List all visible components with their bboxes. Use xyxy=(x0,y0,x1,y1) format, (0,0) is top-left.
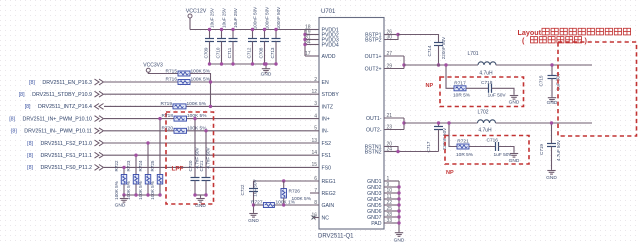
svg-text:10uF 25V: 10uF 25V xyxy=(222,7,227,28)
junction C710 top xyxy=(220,28,223,31)
svg-text:NC: NC xyxy=(322,215,330,221)
svg-text:C720: C720 xyxy=(188,160,193,171)
wire net REG1 xyxy=(254,181,320,189)
no-connect X on pin 16 xyxy=(312,216,316,220)
resistor R715 100K 5% xyxy=(178,71,190,76)
svg-text:[8]: [8] xyxy=(27,165,33,171)
wire ground drop of cap bank xyxy=(265,64,267,68)
junction R726 bottom on GAIN xyxy=(282,203,285,206)
wire pulldown ground drop xyxy=(123,195,125,197)
svg-text:GND: GND xyxy=(509,100,520,106)
junction BSTN tie xyxy=(396,150,399,153)
svg-text:C713: C713 xyxy=(270,47,275,58)
svg-text:C721: C721 xyxy=(199,160,204,171)
wire LPF ground drop xyxy=(200,195,202,197)
resistor R720 100K 5% (IN- series) xyxy=(174,128,187,133)
svg-text:100K 5%: 100K 5% xyxy=(187,125,207,131)
wire R721 to C716 xyxy=(469,146,496,148)
NP dashed outline box (top snubber) xyxy=(440,77,524,107)
svg-text:R721: R721 xyxy=(457,139,469,145)
resistor R723 100K 5% pulldown xyxy=(135,155,137,174)
svg-text:NP: NP xyxy=(446,170,454,176)
svg-text:FS2: FS2 xyxy=(322,141,332,147)
junction R723 bottom xyxy=(134,193,137,196)
svg-text:GND: GND xyxy=(195,203,206,209)
port DRV2511_FS0_P11.2 xyxy=(95,165,104,171)
wire OUT- line to L702 xyxy=(404,122,478,124)
svg-text:100K 5%: 100K 5% xyxy=(114,181,119,200)
svg-text:R718: R718 xyxy=(162,113,174,119)
svg-text:DRV2511_STDBY_P10.9: DRV2511_STDBY_P10.9 xyxy=(32,92,92,98)
wire BSTP to C714 xyxy=(398,35,439,43)
junction C720 top xyxy=(193,117,196,120)
wire net DRV2511_FS0_P11.2 xyxy=(104,166,319,168)
svg-text:GND: GND xyxy=(509,158,520,164)
junction OUT+ takeoff xyxy=(402,63,405,66)
svg-text:R727: R727 xyxy=(251,199,263,205)
svg-text:L702: L702 xyxy=(477,110,488,116)
svg-text:100K 5%: 100K 5% xyxy=(187,101,207,107)
svg-text:[8]: [8] xyxy=(9,116,15,122)
wire C717 to BSTN pins xyxy=(398,151,439,153)
wire net DRV2511_IN+_PWM_P10.10 xyxy=(104,118,174,120)
junction GND tie y=223 xyxy=(397,221,400,224)
capacitor C711 10uF 25V xyxy=(232,30,234,39)
svg-text:OUT2+: OUT2+ xyxy=(365,66,382,72)
wire OUT- line after L702 xyxy=(496,122,593,124)
svg-text:[8]: [8] xyxy=(29,80,35,86)
resistor R719 100K 5% (INTZ series) xyxy=(173,104,186,109)
inductor L702 4.7uH xyxy=(478,120,496,123)
wire C718 to ground (top) xyxy=(492,88,515,94)
junction R724 top xyxy=(146,141,149,144)
svg-text:NP: NP xyxy=(426,83,434,89)
svg-text:100K 5%: 100K 5% xyxy=(126,181,131,200)
svg-text:R720: R720 xyxy=(162,125,174,131)
svg-text:R717: R717 xyxy=(454,80,466,86)
wire BSTP2 stub xyxy=(384,35,398,40)
port DRV2511_INTZ_P16.4 xyxy=(95,104,104,110)
svg-text:[8]: [8] xyxy=(27,153,33,159)
wire net DRV2511_IN-_PWM_P10.11 xyxy=(104,130,174,132)
port DRV2511_FS1_P11.1 xyxy=(95,152,104,158)
wire C716 to ground (bottom) xyxy=(499,147,515,153)
svg-text:OUT1+: OUT1+ xyxy=(365,54,382,60)
dashed outline box: board pad area xyxy=(558,42,637,136)
svg-text:C714: C714 xyxy=(427,45,432,56)
svg-text:U701: U701 xyxy=(321,9,336,15)
junction R725 top xyxy=(158,117,161,120)
svg-text:100K 5%: 100K 5% xyxy=(150,181,155,200)
svg-text:DRV2511_EN_P16.3: DRV2511_EN_P16.3 xyxy=(42,80,92,86)
svg-text:GND: GND xyxy=(394,238,405,244)
wire VCC12V vertical drop xyxy=(189,18,191,30)
svg-text:PVDD4: PVDD4 xyxy=(322,42,339,48)
pin 7 stub (unconnected) xyxy=(310,192,319,194)
junction C712 bottom xyxy=(251,62,254,65)
ground symbol C719 xyxy=(547,169,555,174)
wire net DRV2511_FS1_P11.1 xyxy=(104,154,319,156)
svg-text:34: 34 xyxy=(305,39,311,45)
svg-text:[8]: [8] xyxy=(27,141,33,147)
wire net DRV2511_INTZ_P16.4 xyxy=(104,105,173,107)
wire pin18 stub xyxy=(305,29,319,31)
junction BSTP tie xyxy=(396,33,399,36)
wire net DRV2511_EN_P16.3 xyxy=(104,81,178,83)
svg-text:C719: C719 xyxy=(539,144,544,155)
junction GND tie y=217 xyxy=(397,215,400,218)
port DRV2511_FS2_P11.0 xyxy=(95,140,104,146)
svg-text:C716: C716 xyxy=(487,138,499,144)
wire snubber drop (bottom) xyxy=(449,123,457,147)
svg-text:GND: GND xyxy=(546,175,557,181)
svg-text:DRV2511_FS2_P11.0: DRV2511_FS2_P11.0 xyxy=(40,141,92,147)
wire R715 to node xyxy=(190,74,211,107)
svg-text:R725: R725 xyxy=(150,160,155,171)
svg-text:10R 5%: 10R 5% xyxy=(456,152,474,158)
junction C708 top xyxy=(263,28,266,31)
svg-text:OUT1-: OUT1- xyxy=(366,116,382,122)
junction GND tie y=193 xyxy=(397,191,400,194)
svg-text:4.7nF 50V: 4.7nF 50V xyxy=(206,146,211,168)
junction C721 bottom xyxy=(204,193,207,196)
svg-text:R715: R715 xyxy=(166,68,178,74)
svg-text:100nF 50V: 100nF 50V xyxy=(265,6,270,29)
svg-text:C715: C715 xyxy=(539,75,544,86)
svg-text:BSTP2: BSTP2 xyxy=(365,37,382,43)
ground symbol bottom snubber xyxy=(510,152,518,157)
wire OUT1+ stub xyxy=(384,55,404,57)
junction C719 on OUT- line xyxy=(550,121,553,124)
svg-text:L701: L701 xyxy=(467,51,478,57)
wire GND pin stubs and tie xyxy=(384,180,399,182)
svg-text:10uF 25V: 10uF 25V xyxy=(233,7,238,28)
junction GND tie y=187 xyxy=(397,185,400,188)
wire C722 leg to R727 xyxy=(254,204,264,206)
svg-text:C711: C711 xyxy=(227,47,232,58)
wire LPF cap ground bus xyxy=(195,194,206,196)
resistor R718 100K 5% (IN+ series) xyxy=(174,116,187,121)
op-amp / driver IC U701 DRV2511-Q1 body xyxy=(319,18,384,230)
svg-text:17: 17 xyxy=(305,51,311,57)
power symbol VCC12V xyxy=(188,14,192,18)
svg-text:10R 5%: 10R 5% xyxy=(453,92,471,98)
capacitor C719 4.7uF 50V xyxy=(551,123,553,144)
svg-text:STDBY: STDBY xyxy=(322,92,340,98)
junction C711 bottom xyxy=(231,62,234,65)
junction snubber takeoff (bottom) xyxy=(447,121,450,124)
svg-text:100K 5%: 100K 5% xyxy=(187,113,207,119)
capacitor C721 4.7nF 50V xyxy=(205,131,207,178)
junction C709 bottom xyxy=(208,62,211,65)
svg-text:100K 5%: 100K 5% xyxy=(292,196,312,202)
wire pin17 AVDD stub xyxy=(305,55,319,57)
resistor R721 10R 5% xyxy=(457,144,469,149)
resistor R727 100K 1% xyxy=(263,203,274,208)
junction C711 top xyxy=(231,28,234,31)
svg-text:[8]: [8] xyxy=(25,104,31,110)
pin 16 stub (unconnected) xyxy=(314,217,320,219)
wire OUT- tie vertical xyxy=(403,118,405,130)
junction R723 top xyxy=(134,154,137,157)
svg-text:C708: C708 xyxy=(259,47,264,58)
wire snubber drop (top) xyxy=(446,65,454,88)
svg-text:C710: C710 xyxy=(216,47,221,58)
svg-text:FS1: FS1 xyxy=(322,153,332,159)
svg-text:R723: R723 xyxy=(126,160,131,171)
inductor L701 4.7uH xyxy=(478,62,496,65)
wire pulldown ground bus xyxy=(124,194,160,196)
svg-text:BSTN2: BSTN2 xyxy=(365,149,382,155)
wire R717 to C718 xyxy=(466,87,489,89)
junction GND tie y=205 xyxy=(397,203,400,206)
ground symbol LPF xyxy=(196,197,204,202)
svg-text:LPF: LPF xyxy=(172,166,184,173)
junction R722 bottom xyxy=(122,193,125,196)
svg-text:GND: GND xyxy=(261,72,272,78)
svg-text:4.7uH: 4.7uH xyxy=(479,70,493,76)
wire OUT+ line to L701 xyxy=(404,64,478,66)
junction PVDD2 xyxy=(303,33,306,36)
junction C721 top xyxy=(204,129,207,132)
junction PVDD3 xyxy=(303,38,306,41)
svg-text:INTZ: INTZ xyxy=(322,104,334,110)
svg-text:220nF 50V: 220nF 50V xyxy=(441,36,446,59)
capacitor C712 100nF 50V xyxy=(252,30,254,39)
svg-text:R722: R722 xyxy=(114,160,119,171)
ground symbol pulldowns xyxy=(120,197,128,202)
wire OUT2+ stub xyxy=(384,68,404,70)
junction C713 bottom xyxy=(274,62,277,65)
svg-text:DRV2511_IN-_PWM_P10.11: DRV2511_IN-_PWM_P10.11 xyxy=(24,129,92,135)
wire VCC3V3 to R715 xyxy=(148,72,178,73)
ground symbol C722 xyxy=(249,212,257,217)
svg-text:VCC12V: VCC12V xyxy=(186,9,207,15)
svg-text:R719: R719 xyxy=(161,101,173,107)
svg-text:1uF 50V: 1uF 50V xyxy=(253,178,258,196)
svg-text:C722: C722 xyxy=(240,184,245,195)
capacitor C710 10uF 25V xyxy=(221,30,223,39)
junction C709 top xyxy=(208,28,211,31)
wire VCC12V horizontal bus to PVDD pins xyxy=(190,29,305,31)
LPF dashed outline box xyxy=(166,112,214,204)
junction R722 top xyxy=(122,166,125,169)
junction C710 bottom xyxy=(220,62,223,65)
NP dashed outline box (bottom snubber) xyxy=(445,136,529,165)
svg-text:PAD: PAD xyxy=(371,221,382,227)
ground symbol cap bank xyxy=(262,68,270,73)
svg-text:GND: GND xyxy=(547,100,558,106)
svg-text:100K 5%: 100K 5% xyxy=(138,181,143,200)
capacitor C717 220nF 50V xyxy=(438,123,440,127)
svg-text:IN-: IN- xyxy=(322,129,329,135)
resistor R722 100K 5% pulldown xyxy=(123,167,125,174)
svg-text:GND: GND xyxy=(115,203,126,209)
capacitor C722 1uF 50V xyxy=(249,189,258,192)
ground symbol chip GND xyxy=(395,232,403,237)
junction C712 top xyxy=(251,28,254,31)
ground symbol top snubber xyxy=(510,94,518,99)
svg-text:C712: C712 xyxy=(247,47,252,58)
wire PVDD pin tie vertical xyxy=(304,30,306,57)
svg-text:[8]: [8] xyxy=(19,92,25,98)
wire BSTN2 stub xyxy=(384,151,398,153)
capacitor C715 1uF 50V xyxy=(551,65,553,76)
junction PVDD4 xyxy=(303,43,306,46)
junction R725 bottom xyxy=(158,193,161,196)
wire OUT1- stub xyxy=(384,117,404,119)
capacitor C714 220nF 50V xyxy=(434,43,443,46)
junction C713 top xyxy=(274,28,277,31)
svg-text:C718: C718 xyxy=(481,80,493,86)
svg-text:OUT2-: OUT2- xyxy=(366,127,382,133)
resistor R716 100K 5% (EN series) xyxy=(178,80,190,85)
junction cap bank ground xyxy=(264,62,267,65)
port DRV2511_EN_P16.3 xyxy=(95,79,104,85)
svg-text:C709: C709 xyxy=(204,47,209,58)
resistor R717 10R 5% xyxy=(454,86,466,91)
junction GAIN tap on C722 leg xyxy=(252,203,255,206)
wire decoupling cap ground bus xyxy=(210,63,277,65)
junction C708 bottom xyxy=(263,62,266,65)
svg-text:220nF 50V: 220nF 50V xyxy=(442,127,447,150)
capacitor C718 1uF 50V xyxy=(489,84,492,93)
svg-text:4.7uH: 4.7uH xyxy=(478,128,492,134)
wire net DRV2511_STDBY_P10.9 xyxy=(104,93,319,95)
svg-text:100nF 50V: 100nF 50V xyxy=(276,6,281,29)
svg-text:DRV2511-Q1: DRV2511-Q1 xyxy=(318,234,354,240)
junction GND tie y=211 xyxy=(397,209,400,212)
junction node at INTZ row xyxy=(209,105,212,108)
svg-text:DRV2511_FS0_P11.2: DRV2511_FS0_P11.2 xyxy=(40,165,92,171)
svg-text:IN+: IN+ xyxy=(322,117,330,123)
capacitor C720 4.7nF 50V xyxy=(194,119,196,178)
capacitor C716 1uF 50V xyxy=(496,142,499,151)
resistor R725 100K 5% pulldown xyxy=(159,119,161,175)
junction C715 on OUT+ line xyxy=(550,63,553,66)
svg-text:GND: GND xyxy=(248,218,259,224)
capacitor C713 100nF 50V xyxy=(275,30,277,39)
junction C717 on OUT- line xyxy=(437,121,440,124)
svg-text:C717: C717 xyxy=(426,141,431,152)
svg-text:100K 5%: 100K 5% xyxy=(191,77,211,83)
wire pin31 stub xyxy=(305,39,319,41)
svg-text:R726: R726 xyxy=(289,189,301,195)
svg-text:REG2: REG2 xyxy=(322,191,336,197)
junction R726 top on REG1 xyxy=(282,179,285,182)
wire OUT+ line after L701 xyxy=(496,64,592,66)
svg-text:FS0: FS0 xyxy=(322,165,332,171)
port DRV2511_IN+_PWM_P10.10 xyxy=(95,116,104,122)
resistor R726 100K 5% xyxy=(283,181,285,189)
wire R727 to GAIN pin xyxy=(274,204,319,206)
svg-text:GAIN: GAIN xyxy=(322,203,335,209)
resistor R724 100K 5% pulldown xyxy=(147,143,149,175)
wire BSTN1 stub xyxy=(384,147,398,152)
junction node at EN row xyxy=(209,80,212,83)
svg-text:DRV2511_IN+_PWM_P10.10: DRV2511_IN+_PWM_P10.10 xyxy=(23,116,92,122)
junction C714 on OUT+ line xyxy=(437,63,440,66)
svg-text:1uF 50V: 1uF 50V xyxy=(488,92,507,98)
junction C720 bottom xyxy=(193,193,196,196)
svg-text:DRV2511_INTZ_P16.4: DRV2511_INTZ_P16.4 xyxy=(38,104,92,110)
wire OUT+ tie vertical xyxy=(403,56,405,69)
svg-text:DRV2511_FS1_P11.1: DRV2511_FS1_P11.1 xyxy=(40,153,92,159)
wire BSTP1 stub xyxy=(384,34,398,36)
svg-text:R724: R724 xyxy=(138,160,143,171)
port DRV2511_IN-_PWM_P10.11 xyxy=(95,128,104,134)
wire net DRV2511_FS2_P11.0 xyxy=(104,142,319,144)
junction OUT- takeoff xyxy=(402,121,405,124)
wire pin19 stub xyxy=(305,34,319,36)
svg-text:REG1: REG1 xyxy=(322,179,336,185)
junction GND tie y=199 xyxy=(397,197,400,200)
junction snubber takeoff (top) xyxy=(444,63,447,66)
svg-text:EN: EN xyxy=(322,80,329,86)
svg-text:VCC3V3: VCC3V3 xyxy=(143,63,163,69)
junction R724 bottom xyxy=(146,193,149,196)
svg-text:[8]: [8] xyxy=(11,129,17,135)
ground symbol C715 xyxy=(548,97,556,102)
power symbol VCC3V3 xyxy=(146,68,150,72)
wire pin34 stub xyxy=(305,44,319,46)
svg-text:100nF 50V: 100nF 50V xyxy=(253,6,258,29)
port DRV2511_STDBY_P10.9 xyxy=(95,91,104,97)
svg-text:1uF 50V: 1uF 50V xyxy=(494,152,513,158)
capacitor C709 10uF 25V xyxy=(209,30,211,39)
svg-text:AVDD: AVDD xyxy=(322,54,336,60)
svg-text:R716: R716 xyxy=(166,77,178,83)
wire OUT2- stub xyxy=(384,129,404,131)
capacitor C708 100nF 50V xyxy=(264,30,266,39)
svg-text:10uF 25V: 10uF 25V xyxy=(210,7,215,28)
svg-text:4.7uF 50V: 4.7uF 50V xyxy=(556,139,561,161)
